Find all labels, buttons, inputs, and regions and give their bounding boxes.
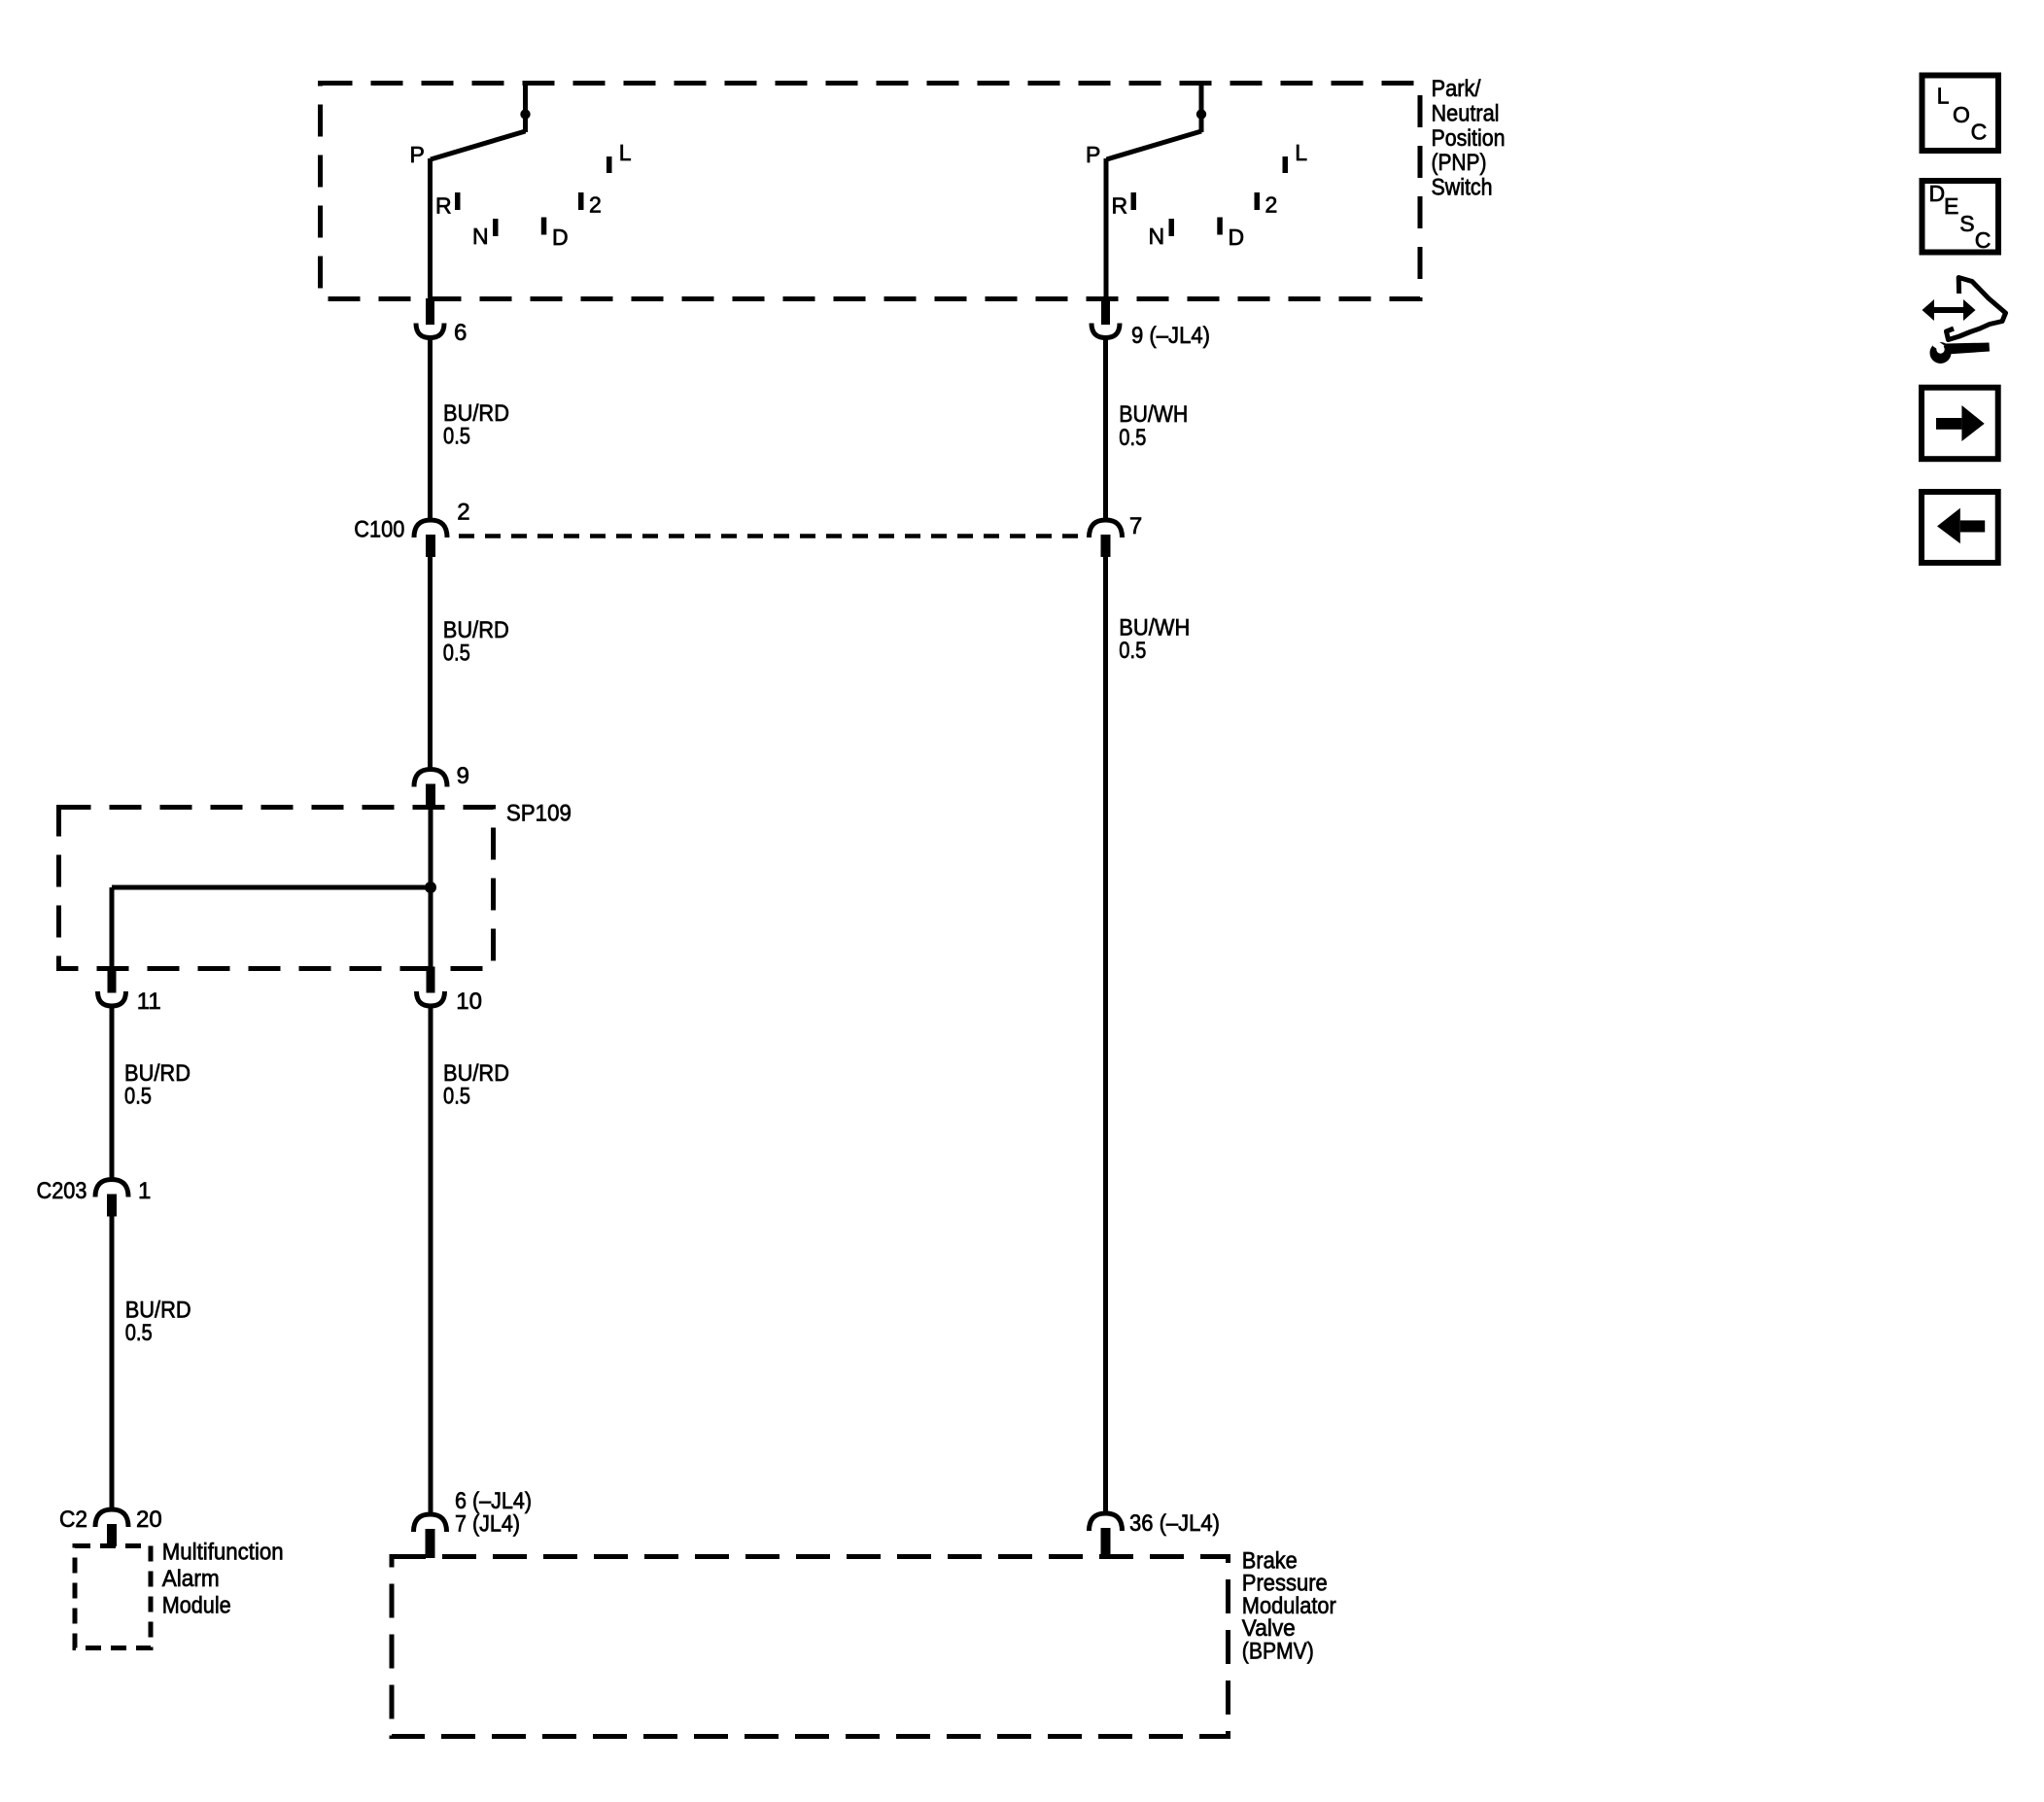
svg-text:R: R: [435, 193, 452, 219]
svg-text:(BPMV): (BPMV): [1242, 1638, 1314, 1664]
svg-text:7 (JL4): 7 (JL4): [455, 1511, 520, 1538]
svg-text:9: 9: [457, 763, 469, 789]
svg-text:2: 2: [589, 192, 602, 218]
svg-text:Switch: Switch: [1432, 175, 1493, 201]
svg-text:Module: Module: [162, 1593, 231, 1619]
svg-text:0.5: 0.5: [125, 1320, 153, 1346]
svg-text:0.5: 0.5: [443, 641, 470, 667]
svg-text:L: L: [1937, 84, 1950, 109]
svg-text:D: D: [1929, 181, 1946, 206]
svg-text:Neutral: Neutral: [1432, 100, 1500, 126]
svg-text:SP109: SP109: [506, 801, 572, 827]
svg-text:C100: C100: [354, 517, 404, 543]
svg-text:L: L: [619, 140, 632, 165]
svg-text:11: 11: [137, 988, 161, 1015]
svg-text:0.5: 0.5: [443, 424, 470, 450]
svg-text:Park/: Park/: [1432, 76, 1481, 102]
svg-text:36 (–JL4): 36 (–JL4): [1129, 1510, 1220, 1537]
svg-text:R: R: [1112, 193, 1128, 219]
svg-text:C: C: [1975, 227, 1992, 253]
svg-text:Position: Position: [1432, 125, 1506, 152]
svg-text:2: 2: [457, 500, 469, 526]
svg-text:9 (–JL4): 9 (–JL4): [1131, 323, 1210, 349]
svg-text:C: C: [1971, 120, 1988, 145]
svg-text:(PNP): (PNP): [1432, 150, 1487, 176]
svg-text:BU/WH: BU/WH: [1119, 401, 1188, 428]
svg-text:2: 2: [1265, 192, 1278, 218]
svg-text:0.5: 0.5: [1119, 425, 1146, 451]
svg-text:P: P: [410, 142, 425, 167]
svg-text:L: L: [1295, 140, 1307, 165]
svg-text:0.5: 0.5: [124, 1084, 152, 1110]
svg-text:C203: C203: [37, 1178, 87, 1204]
svg-text:E: E: [1944, 193, 1958, 219]
svg-text:0.5: 0.5: [443, 1084, 470, 1110]
svg-text:0.5: 0.5: [1119, 638, 1146, 664]
svg-text:N: N: [1149, 224, 1165, 249]
svg-text:6: 6: [454, 320, 467, 346]
svg-text:C2: C2: [59, 1507, 87, 1533]
svg-text:P: P: [1086, 142, 1100, 167]
svg-text:Multifunction: Multifunction: [162, 1540, 284, 1566]
svg-text:N: N: [472, 224, 489, 249]
svg-text:D: D: [552, 225, 569, 250]
svg-text:10: 10: [456, 988, 482, 1015]
svg-text:7: 7: [1129, 513, 1142, 539]
svg-text:S: S: [1959, 211, 1974, 236]
svg-text:D: D: [1229, 225, 1245, 250]
svg-text:20: 20: [136, 1507, 162, 1533]
svg-text:1: 1: [138, 1178, 151, 1204]
svg-text:O: O: [1953, 102, 1970, 127]
svg-text:Alarm: Alarm: [162, 1566, 220, 1592]
